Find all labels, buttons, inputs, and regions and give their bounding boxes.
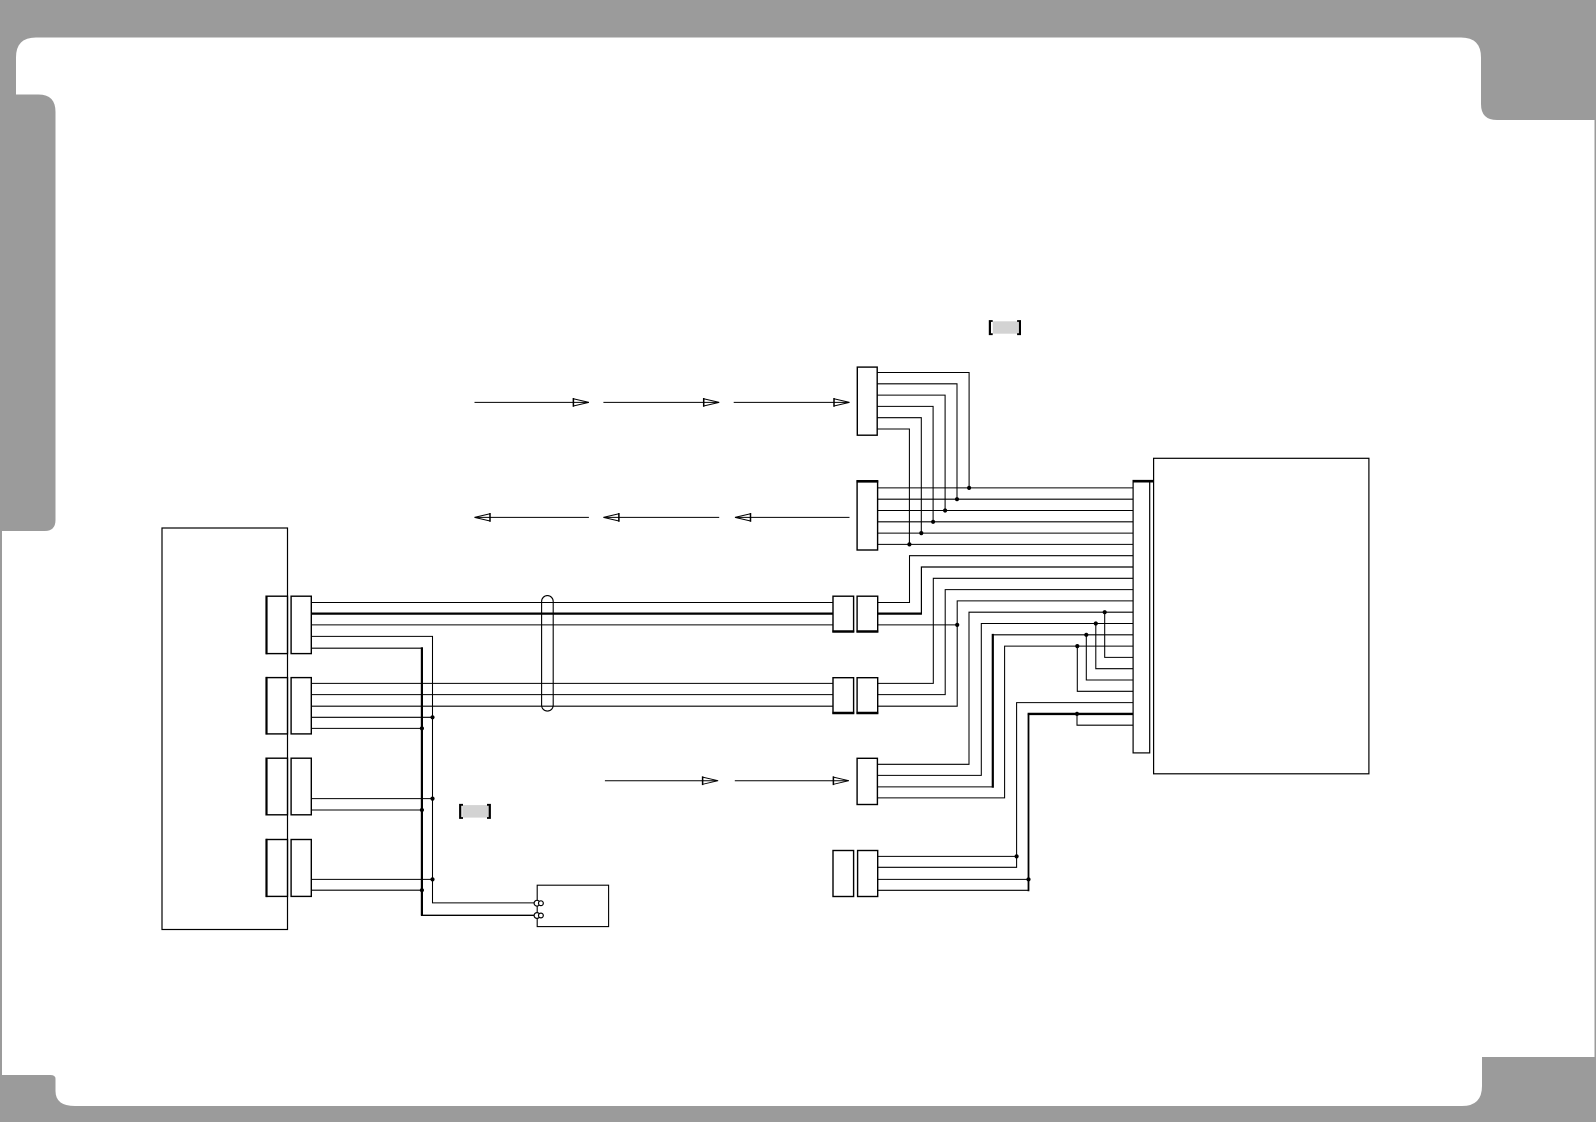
connector CN-A plug xyxy=(857,596,878,631)
junction xyxy=(907,542,911,546)
junction xyxy=(1103,610,1107,614)
junction xyxy=(430,715,434,719)
junction xyxy=(1075,712,1079,716)
wire P1-5 to fan motor (thick vertical) xyxy=(311,647,422,649)
wire xyxy=(992,634,994,788)
wire bridge pins 12-16 xyxy=(1105,612,1133,657)
connector CN-S (second) xyxy=(857,481,878,550)
arrow right xyxy=(834,399,850,406)
connector P1 housing xyxy=(267,596,288,653)
wire CN-C4 to board pin 15 xyxy=(877,646,1133,798)
wire P1-4 to fan motor xyxy=(311,636,534,903)
wire xyxy=(993,634,1133,636)
junction dots xyxy=(420,486,1107,893)
junction xyxy=(955,497,959,501)
wire xyxy=(921,567,1133,615)
wire P4-2 xyxy=(311,889,422,891)
junction xyxy=(943,508,947,512)
connector CN-C xyxy=(857,758,877,804)
connector P3 plug xyxy=(291,758,311,815)
part label placeholder 2 xyxy=(459,804,491,819)
wire xyxy=(421,914,534,916)
wire board pin 3 xyxy=(878,510,1134,512)
junction xyxy=(420,888,424,892)
arrow right xyxy=(573,399,589,406)
wire CN-C1 to board pin 12 xyxy=(877,612,1133,764)
wire CN-C3 to board pin 14 (thick riser) xyxy=(877,786,992,788)
wire CN-D2 to board pin 20 xyxy=(878,703,1133,868)
junction xyxy=(420,808,424,812)
wire xyxy=(421,647,423,915)
wire CN-D3 stub xyxy=(878,878,1029,880)
arrow right xyxy=(833,777,849,784)
wire CN-B3 to board pin 11 xyxy=(878,601,1133,706)
wire board pin 21 (thick) xyxy=(1028,713,1134,715)
wire board pin 5 xyxy=(878,532,1134,534)
wire CN-T4 xyxy=(877,406,933,521)
wire P1-1 xyxy=(311,602,833,604)
wire xyxy=(1028,714,1030,891)
connector P4 housing xyxy=(267,840,288,897)
wire board pin 4 xyxy=(878,521,1134,523)
connector P3 housing xyxy=(267,758,288,815)
wire board pin 2 xyxy=(878,498,1134,500)
wire CN-B2 to board pin 10 xyxy=(878,590,1133,695)
wire P1-2 (thick) xyxy=(311,612,833,614)
wire P2-3 xyxy=(311,705,833,707)
connector CN-T (top) xyxy=(857,367,877,435)
wire P2-4 xyxy=(311,716,432,718)
wire bridge pins 13-17 xyxy=(1096,624,1133,669)
wire CN-T3 xyxy=(877,395,945,510)
connector CN-D plug xyxy=(858,851,878,897)
junction xyxy=(967,486,971,490)
connector CN-B housing xyxy=(833,678,854,713)
board edge connector strip xyxy=(1133,481,1150,753)
wire board pin 1 xyxy=(878,487,1134,489)
connector CN-D housing xyxy=(833,851,854,897)
arrow right xyxy=(703,777,719,784)
junction xyxy=(931,520,935,524)
wire CN-C2 to board pin 13 xyxy=(877,624,1133,776)
part label placeholder 1 xyxy=(989,320,1021,335)
motor terminal 2 xyxy=(534,913,540,919)
wire P2-5 xyxy=(311,727,422,729)
arrow left xyxy=(475,514,491,521)
arrow right xyxy=(704,399,720,406)
wire bridge pins 21-22 xyxy=(1077,714,1133,725)
arrow left xyxy=(603,514,619,521)
junction xyxy=(1084,633,1088,637)
wire CN-A2 to board pin 8 (thick lead) xyxy=(878,612,922,614)
wire CN-A3 stub xyxy=(878,624,958,626)
wire CN-T2 xyxy=(877,384,957,499)
wire CN-A1 to board pin 7 xyxy=(878,556,1133,603)
wire CN-T6 xyxy=(877,429,909,544)
fan motor box xyxy=(537,885,608,926)
connector CN-B plug xyxy=(857,678,878,713)
wire CN-D4 to board pin 21 xyxy=(878,889,1029,891)
wire CN-T5 xyxy=(877,418,921,533)
wire P3-1 xyxy=(311,798,432,800)
junction xyxy=(1075,644,1079,648)
connector P2 plug xyxy=(291,678,311,734)
junction xyxy=(420,726,424,730)
junction xyxy=(919,531,923,535)
arrow left xyxy=(735,514,751,521)
connector P1 plug xyxy=(291,596,311,653)
wire P1-3 xyxy=(311,624,833,626)
motor terminal 1 xyxy=(534,900,540,906)
wire bridge pins 15-19 xyxy=(1077,646,1133,691)
wire bridge pins 14-18 xyxy=(1086,635,1133,680)
wire P2-1 xyxy=(311,682,833,684)
connector CN-A housing xyxy=(833,596,854,631)
junction xyxy=(430,877,434,881)
wire CN-B1 to board pin 9 xyxy=(878,578,1133,683)
junction xyxy=(955,623,959,627)
junction xyxy=(1094,621,1098,625)
junction xyxy=(430,797,434,801)
junction xyxy=(1015,854,1019,858)
wire board pin 6 xyxy=(878,543,1134,545)
digital board PCB (right) xyxy=(1154,458,1369,774)
wire P2-2 xyxy=(311,694,833,696)
cable bundle loop xyxy=(542,596,554,712)
wire P4-1 xyxy=(311,878,432,880)
junction xyxy=(1026,877,1030,881)
connector P4 plug xyxy=(291,840,311,897)
connector P2 housing xyxy=(267,678,288,734)
signal flow arrows xyxy=(475,398,850,785)
wire CN-D1 stub xyxy=(878,855,1017,857)
wire P3-2 xyxy=(311,809,422,811)
wire CN-T1 xyxy=(877,373,969,488)
main board PCB (left) xyxy=(162,528,288,930)
